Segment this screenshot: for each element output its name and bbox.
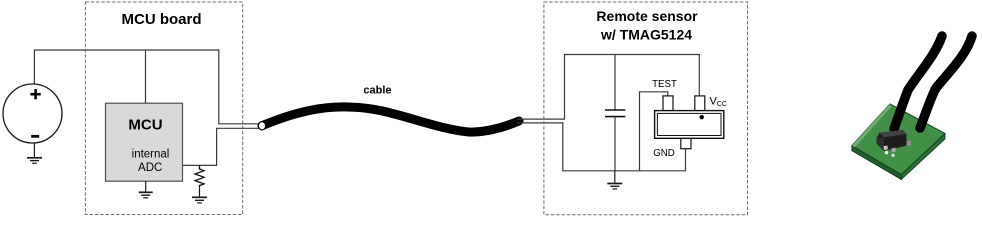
resistor R1	[195, 165, 204, 188]
cable end ferrule (left)	[258, 122, 265, 130]
photo: cable 2 (right)	[920, 36, 972, 128]
wire: branch from top rail to MCU	[145, 50, 147, 103]
cable (thick)	[262, 107, 519, 132]
svg-text:internal: internal	[132, 149, 170, 161]
wire: V1 top rail to cable top conductor	[34, 50, 258, 124]
svg-text:w/ TMAG5124: w/ TMAG5124	[600, 27, 692, 43]
svg-text:MCU board: MCU board	[122, 11, 202, 28]
ground below R1	[192, 188, 207, 203]
leads	[884, 145, 888, 150]
svg-text:TEST: TEST	[652, 79, 677, 90]
wire: cable top conductor to Vcc rail	[517, 55, 699, 120]
photo: PCB top face	[852, 104, 945, 175]
wire: TEST pin to ground rail	[640, 92, 668, 171]
svg-text:cable: cable	[363, 85, 391, 97]
MCU block	[106, 103, 183, 181]
svg-text:GND: GND	[653, 148, 675, 159]
dashed enclosure: Remote sensor	[544, 2, 748, 215]
wire: MCU ADC output to cable bottom conductor	[183, 128, 259, 165]
voltage source V1	[3, 84, 62, 143]
photo: PCB board side faces	[852, 134, 945, 180]
ground below C1 / ground rail	[607, 171, 622, 189]
ground below V1	[27, 143, 42, 163]
svg-text:Remote sensor: Remote sensor	[596, 8, 698, 24]
svg-text:VCC: VCC	[710, 95, 727, 108]
dashed enclosure: MCU board	[85, 2, 242, 215]
ground below MCU	[139, 181, 153, 198]
photo: cable 1 (left)	[894, 36, 942, 129]
photo: PCB top face highlight	[852, 104, 892, 147]
capacitor C1	[605, 55, 625, 171]
svg-text:MCU: MCU	[128, 117, 162, 134]
sensor U1 TMAG5124 package	[655, 96, 724, 149]
photo: sensor component on PCB	[877, 130, 912, 157]
wire: cable bottom conductor to ground rail	[517, 123, 686, 171]
svg-text:ADC: ADC	[138, 162, 162, 174]
